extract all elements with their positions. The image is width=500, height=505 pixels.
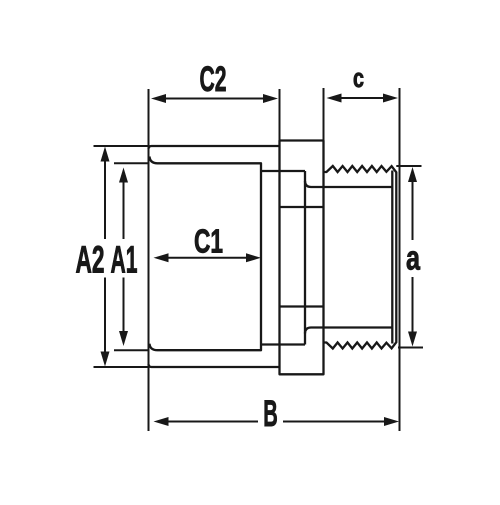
svg-text:c: c [353,63,364,93]
svg-text:a: a [406,240,421,278]
svg-text:C1: C1 [194,223,223,260]
svg-text:A2: A2 [76,240,105,282]
svg-text:A1: A1 [111,240,138,282]
svg-text:C2: C2 [200,60,227,99]
svg-text:B: B [263,393,278,434]
